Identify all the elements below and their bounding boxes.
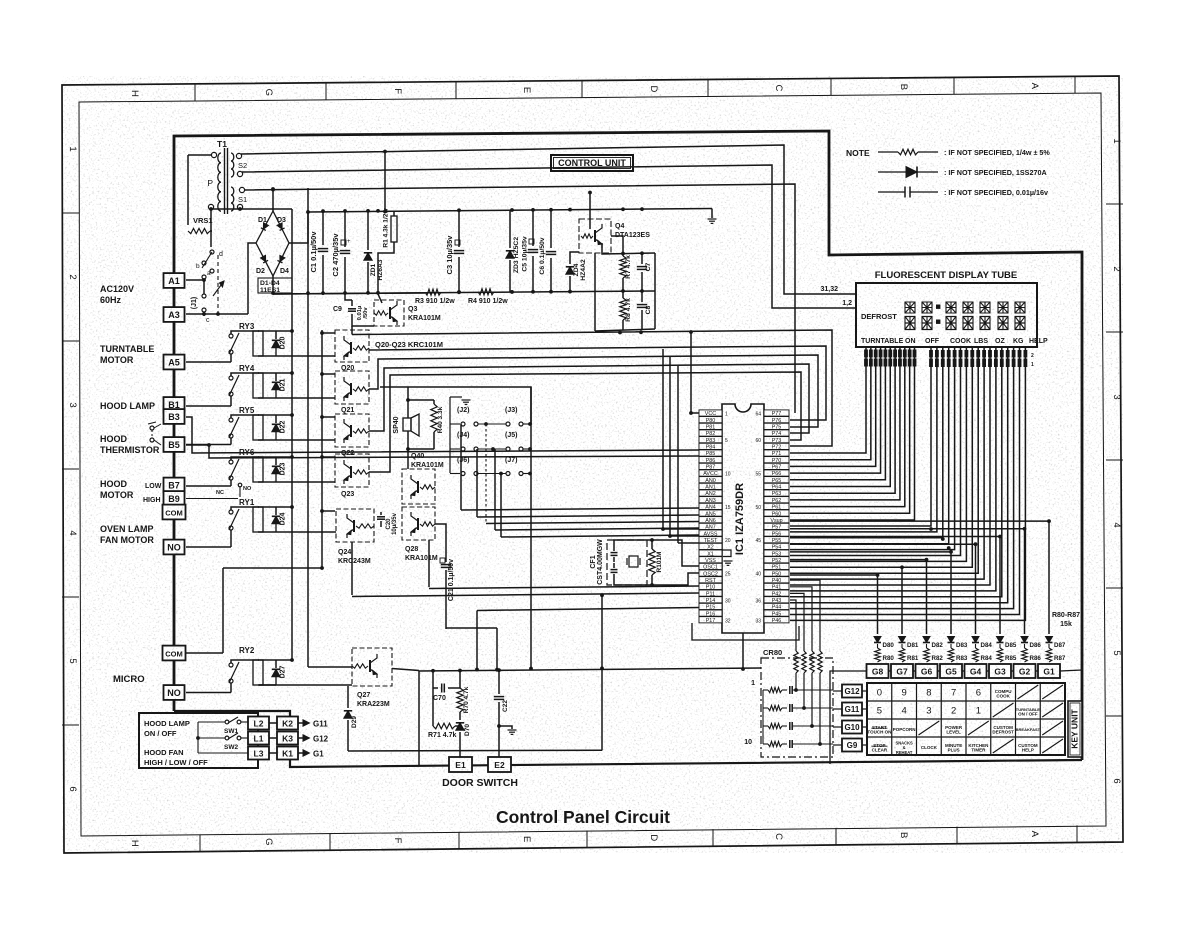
capacitor C3: [458, 210, 460, 247]
wire RY3 top: [231, 331, 259, 334]
capacitor C21: [435, 524, 446, 562]
label D1-D4 11ES1: [258, 278, 292, 293]
wire bus Q21 row: [369, 355, 818, 427]
node G8: [867, 664, 889, 678]
capacitor C22: [498, 670, 500, 694]
node G1: [1038, 664, 1060, 678]
relay coil RY6: [253, 457, 263, 482]
resistor R71 4.7k: [433, 723, 455, 729]
terminal P bottom: [208, 204, 213, 209]
display digits: [905, 302, 915, 313]
wire primary bottom: [210, 209, 212, 247]
jumper right edge wire: [530, 387, 532, 474]
wire speaker top: [380, 387, 531, 424]
relay coil RY1: [253, 507, 263, 532]
KEY UNIT label: [1068, 701, 1082, 757]
terminal K2: [277, 717, 298, 730]
terminal B5: [164, 437, 185, 452]
interlock dashed link: [217, 255, 219, 316]
terminal L1: [248, 732, 269, 745]
diode D87: [1046, 637, 1053, 643]
wire bridge top: [272, 188, 274, 211]
wire J7 row down: [530, 474, 532, 669]
wire bridge bottom: [272, 276, 274, 294]
capacitor C6: [550, 210, 552, 248]
wire coil RY6 rails: [258, 456, 292, 458]
diode D80: [874, 637, 881, 643]
wire key column 2: [926, 560, 928, 634]
jumper row: [450, 423, 460, 425]
transistor Q40: [402, 469, 435, 504]
CR80 rows: [763, 689, 768, 691]
ground stub: [499, 726, 512, 729]
terminal K3: [277, 732, 298, 745]
ground at jumpers: [462, 399, 471, 401]
terminal B1: [164, 397, 185, 412]
arrow G12: [298, 737, 303, 739]
relay supply bus: [291, 209, 293, 660]
wire bridge right: [289, 188, 308, 243]
wire S2top to rail: [384, 152, 386, 212]
wire +rail: [308, 209, 712, 213]
terminal A3: [164, 307, 185, 322]
wire thermistor sense lines: [186, 417, 699, 453]
zener ZD3: [509, 210, 511, 248]
transistor Q3: [374, 300, 404, 326]
resistor R85: [999, 644, 1001, 648]
jumper block J2-J7: [449, 397, 451, 473]
hood thermistor symbol: [150, 426, 154, 430]
border frame inner: [79, 93, 1106, 836]
hood switch box: [139, 713, 258, 768]
wire S1 top to P77: [244, 184, 795, 413]
wire base bus: [321, 330, 323, 568]
transistor Q20: [335, 330, 369, 362]
key matrix grid: [867, 683, 1065, 755]
wire R8 bottom: [595, 329, 655, 331]
transistor Q21: [335, 371, 369, 404]
wire RY2 bottom to Q27: [259, 684, 352, 686]
winding S1: [231, 187, 234, 195]
control unit boundary: [174, 131, 1082, 760]
wire RY1 top: [231, 507, 259, 510]
wire door net: [419, 668, 761, 671]
wire key column 4: [975, 544, 977, 634]
wire bus Q3 row: [352, 330, 832, 446]
jumper drop wires: [460, 424, 462, 510]
zone numbers left: [62, 212, 79, 214]
wire Q27 output: [392, 669, 419, 671]
zener ZD1: [367, 211, 369, 250]
node G2: [1014, 664, 1036, 678]
transistor Q27: [352, 648, 392, 686]
terminal S1 pins: [239, 187, 244, 192]
G row boxes: [833, 690, 842, 692]
wire bridge left: [248, 243, 256, 314]
resistor R3 910 1/2w: [273, 293, 425, 294]
terminal NO: [164, 540, 185, 555]
terminal E1: [449, 757, 472, 772]
display wires group2: [790, 347, 931, 526]
capacitor C1: [322, 211, 324, 245]
wire bus Q20 row: [369, 346, 826, 420]
wire coil RY1 rails: [258, 506, 292, 508]
resistor R70: [459, 670, 461, 688]
terminal B7: [164, 478, 185, 493]
wire 0 rail: [273, 291, 655, 294]
zone letters top: [194, 84, 196, 101]
CR80 pullup resistors: [790, 600, 796, 651]
ground at rail end: [711, 209, 713, 219]
zone numbers right: [1106, 203, 1123, 205]
wire Q3 links: [352, 322, 374, 326]
node G5: [940, 664, 962, 678]
wire key column 5: [999, 537, 1001, 635]
wire key column 6: [1024, 529, 1026, 634]
wire key column 1: [901, 567, 903, 634]
node G4: [965, 664, 987, 678]
legend diode symbol: [878, 171, 906, 173]
terminal K1: [277, 747, 298, 760]
CONTROL UNIT label: [551, 155, 633, 171]
IC1 right pins: [764, 410, 789, 416]
wire D29 row: [348, 749, 602, 752]
wire A1 to switch: [186, 279, 204, 281]
legend capacitor symbol: [878, 191, 905, 193]
resistor R87: [1048, 644, 1050, 648]
diode D85: [997, 637, 1004, 643]
wire osc to IC: [614, 540, 652, 546]
arrow G11: [298, 722, 303, 724]
diode D21: [275, 373, 277, 381]
capacitor C2: [344, 211, 346, 247]
diode D82: [923, 637, 930, 643]
wire RY2 top: [231, 660, 259, 663]
terminal B9: [164, 491, 185, 506]
wire G box bus: [889, 670, 892, 672]
arrow G1: [298, 752, 303, 754]
diode D84: [972, 637, 979, 643]
diode D24: [275, 507, 277, 515]
wire coil RY5 rails: [258, 414, 292, 416]
resistor R80: [877, 644, 879, 648]
resistor R83: [950, 644, 952, 648]
resistor R40: [408, 399, 434, 401]
transformer core: [224, 148, 226, 214]
resistor R101M: [651, 546, 653, 549]
display colon: [937, 305, 940, 308]
wire Q28 down: [428, 540, 430, 587]
wire hood switches: [198, 721, 225, 723]
wire lower buses to P1x: [429, 586, 699, 589]
wire P14 bus: [477, 608, 699, 611]
terminal E2: [488, 757, 511, 772]
wire aux verticals: [662, 349, 664, 529]
wire RY1 terminal: [186, 546, 231, 548]
op-amp U1 IC1 IZA759DR body: [722, 404, 764, 633]
display pin stub labels: [865, 350, 868, 357]
wire RY6 terminal: [186, 485, 231, 487]
wires L to K: [269, 722, 277, 724]
diode D27: [275, 660, 277, 668]
wire RY2 terminal: [186, 692, 231, 694]
wire key scan lines: [790, 574, 878, 576]
wire drop to door line: [601, 595, 603, 750]
capacitor C7: [641, 253, 643, 264]
terminal COM: [163, 646, 186, 661]
capacitor C5: [532, 210, 534, 246]
IC1 under-frame: [692, 623, 799, 640]
wire key column 3: [950, 552, 952, 634]
capacitor C8: [641, 291, 643, 302]
wire RY4 top: [231, 373, 259, 376]
wire RY6 top: [231, 457, 259, 460]
wire IC1 bottom center: [742, 633, 744, 669]
wire C21 to mid: [446, 627, 497, 629]
resistor R84: [975, 644, 977, 648]
zener ZD4: [569, 254, 571, 264]
wire RY3 terminal: [186, 361, 231, 363]
terminal L2: [248, 717, 269, 730]
transistor Q24: [336, 509, 374, 542]
capacitor C20: [380, 512, 382, 515]
terminal B3: [164, 409, 185, 424]
control unit boundary bottom: [174, 711, 290, 718]
node G7: [891, 664, 913, 678]
resistor R8: [622, 291, 624, 298]
wire coil RY2 rails: [258, 659, 292, 661]
diode D20: [275, 331, 277, 339]
legend resistor symbol: [878, 151, 898, 153]
wire mid rail stub: [654, 253, 656, 329]
wire key column 0: [877, 575, 879, 634]
resistor R86: [1024, 644, 1026, 648]
jumper row: [450, 448, 460, 450]
wire to Q40: [407, 449, 409, 469]
capacitor C70: [432, 671, 434, 688]
terminal NO: [164, 685, 185, 700]
wire RY5 terminal: [186, 444, 231, 446]
diode D86: [1021, 637, 1028, 643]
relay coil RY2: [253, 660, 263, 685]
diode D29: [347, 686, 349, 708]
transistor Q28: [402, 507, 435, 540]
terminal P top: [211, 152, 216, 157]
transistor Q23: [335, 454, 369, 487]
display wires group1: [790, 347, 866, 453]
diode D83: [948, 637, 955, 643]
wire bus Q23 row: [369, 372, 801, 472]
wire RY4 terminal: [186, 405, 231, 407]
resistor R7: [622, 253, 624, 256]
transistor Q22: [335, 414, 369, 447]
wire S2 bottom to display 1,2: [242, 165, 855, 308]
wire S2 top to display 31,32: [241, 145, 855, 294]
wire analog bus: [461, 508, 699, 510]
resistor R1: [393, 211, 395, 216]
wire VCC drop: [691, 332, 699, 413]
wire X1 stub: [722, 550, 731, 557]
wire Q4 out: [602, 243, 655, 254]
wire NO bottom to boundary: [173, 699, 175, 711]
IC1 left pins: [699, 410, 722, 416]
wire COM 652 link: [186, 652, 223, 654]
diode D70: [459, 712, 461, 720]
node G6: [916, 664, 938, 678]
switch SW2: [225, 736, 229, 740]
diode D81: [899, 637, 906, 643]
resistor R4 910 1/2w: [478, 289, 494, 295]
ground at VSS: [724, 560, 733, 562]
wire bus Q22 row: [369, 364, 809, 433]
wire Q24 emitter: [351, 542, 353, 595]
wire A3 node: [186, 313, 218, 315]
jumper row: [450, 473, 460, 475]
relay coil RY5: [253, 415, 263, 440]
resistor R82: [926, 644, 928, 648]
terminal A1: [164, 273, 185, 288]
relay coil RY4: [253, 373, 263, 398]
terminal L3: [248, 747, 269, 760]
transistor Q4: [579, 219, 611, 253]
diode D22: [275, 415, 277, 423]
relay coil RY3: [253, 331, 263, 356]
wire key column 7: [1048, 521, 1050, 634]
wire aux vertical to door net: [307, 243, 309, 667]
wire coil RY4 rails: [258, 372, 292, 374]
wire coil RY3 rails: [258, 330, 292, 332]
border frame outer: [62, 76, 1123, 853]
resonator CF1 CST4.00MGW: [607, 540, 647, 585]
node G3: [989, 664, 1011, 678]
diode D23: [275, 457, 277, 465]
zone letters bottom: [199, 835, 201, 852]
resistor R81: [901, 644, 903, 648]
wire RY5 top: [231, 415, 259, 418]
terminal A5: [164, 355, 185, 370]
terminal S2 pins: [236, 153, 241, 158]
bridge rectifier D1-D4: [256, 211, 289, 276]
winding S2: [231, 153, 234, 161]
switch SW1: [225, 720, 229, 724]
speaker SP40: [403, 418, 411, 431]
terminal COM: [163, 505, 186, 520]
wire junction T1 secondary: [211, 208, 292, 210]
wire primary: [188, 154, 212, 156]
